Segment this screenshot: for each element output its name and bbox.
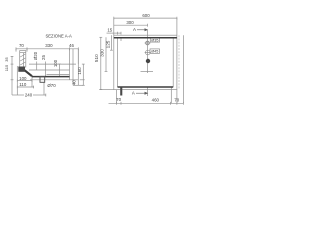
svg-text:330: 330 bbox=[45, 43, 53, 48]
svg-text:110: 110 bbox=[19, 82, 27, 87]
svg-text:46: 46 bbox=[69, 43, 74, 48]
svg-text:70: 70 bbox=[174, 97, 179, 102]
svg-text:100: 100 bbox=[19, 76, 27, 81]
svg-text:125: 125 bbox=[106, 40, 111, 48]
svg-text:40: 40 bbox=[72, 80, 77, 85]
svg-text:25: 25 bbox=[41, 55, 46, 60]
svg-text:Ø70: Ø70 bbox=[47, 83, 56, 88]
svg-text:160: 160 bbox=[77, 67, 82, 75]
svg-text:115: 115 bbox=[4, 64, 9, 71]
svg-text:35: 35 bbox=[4, 57, 9, 62]
svg-text:300: 300 bbox=[126, 20, 134, 25]
svg-text:330: 330 bbox=[100, 49, 105, 57]
svg-text:Ø35: Ø35 bbox=[151, 39, 158, 43]
svg-text:70: 70 bbox=[19, 43, 24, 48]
svg-text:Ø20: Ø20 bbox=[33, 51, 38, 60]
svg-text:600: 600 bbox=[142, 13, 150, 18]
svg-text:15: 15 bbox=[107, 28, 112, 33]
svg-text:A: A bbox=[132, 91, 135, 96]
svg-text:100: 100 bbox=[53, 59, 58, 67]
svg-text:Ø45: Ø45 bbox=[151, 50, 158, 54]
svg-text:A: A bbox=[133, 27, 136, 32]
svg-text:SEZIONE A-A: SEZIONE A-A bbox=[45, 33, 72, 38]
svg-text:70: 70 bbox=[116, 97, 121, 102]
svg-text:240: 240 bbox=[25, 93, 33, 98]
svg-text:510: 510 bbox=[94, 54, 99, 62]
svg-text:460: 460 bbox=[152, 97, 160, 102]
